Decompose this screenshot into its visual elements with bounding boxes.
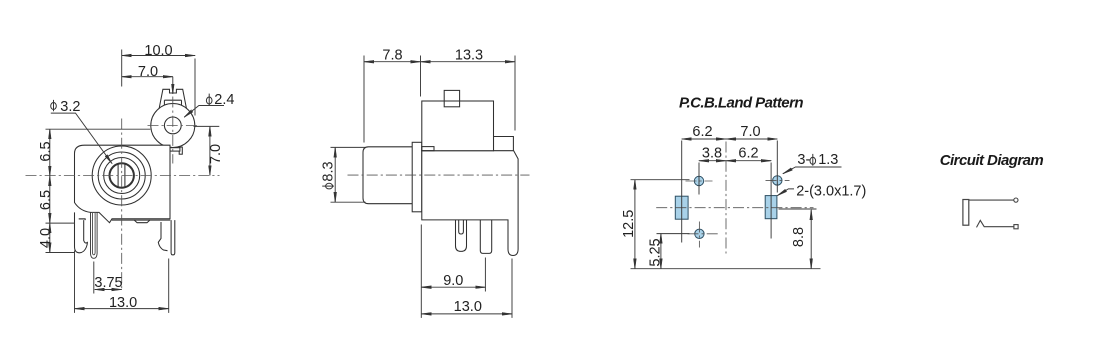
lower body block with ear	[422, 137, 518, 256]
dim 12.5 line	[634, 180, 636, 269]
ext 6.5 top	[46, 128, 151, 130]
svg-text:4.0: 4.0	[38, 228, 54, 248]
hole TR crosshair v	[776, 141, 778, 193]
ext phi8.3 top	[331, 146, 366, 148]
hole B crosshair h	[688, 233, 719, 235]
ext phi8.3 bottom	[331, 201, 366, 203]
dim 6.5 lower line	[49, 176, 51, 223]
pad L crosshair v	[681, 141, 683, 243]
dim 3.75 line	[95, 289, 122, 291]
hole bottom	[695, 229, 704, 238]
svg-text:3.8: 3.8	[702, 146, 722, 162]
switch terminal	[1014, 225, 1018, 229]
centerline vertical main	[121, 119, 123, 290]
svg-text:3.75: 3.75	[94, 275, 122, 291]
svg-text:13.0: 13.0	[454, 299, 482, 315]
barrel	[363, 147, 414, 204]
ext 3.75 left	[93, 262, 95, 294]
svg-text:6.2: 6.2	[738, 146, 758, 162]
body left small step	[79, 218, 85, 220]
front flange	[412, 142, 422, 212]
slot line left	[117, 164, 119, 187]
front view main body outline	[75, 145, 171, 223]
upper box shield	[422, 101, 494, 151]
dim 10.0 line	[122, 55, 195, 57]
centerline horizontal boss	[148, 125, 200, 127]
hole TL crosshair v	[698, 163, 700, 195]
hole B crosshair v	[698, 222, 700, 248]
svg-text:12.5: 12.5	[621, 210, 637, 238]
jack sleeve rectangle	[963, 200, 969, 226]
tip wire	[969, 199, 1014, 201]
ext 13.0 side right	[511, 259, 513, 318]
svg-text:8.3: 8.3	[321, 161, 337, 181]
body bottom band line	[112, 219, 170, 221]
middle thin pin outer	[91, 212, 98, 258]
svg-text:7.0: 7.0	[138, 64, 158, 80]
pad left	[675, 196, 688, 219]
ext 5.25 top	[657, 233, 690, 235]
top tab crossing line	[444, 100, 459, 102]
label phi2.4 leader	[184, 106, 224, 118]
dim 6.2 second line	[726, 160, 771, 162]
dim 9.0 line	[421, 286, 485, 288]
front view solder lug bar	[170, 148, 180, 151]
concentric circle outer r29.5	[92, 146, 151, 205]
pin A front	[456, 220, 467, 252]
ext 13.0 left	[74, 251, 76, 313]
dim 13.0 side line	[421, 313, 512, 315]
ext 7.8 left	[363, 56, 365, 143]
svg-text:9.0: 9.0	[443, 273, 463, 289]
dim 13.0 line	[75, 308, 169, 310]
middle thin pin inner slot	[93, 213, 96, 255]
svg-text:1.3: 1.3	[818, 152, 838, 168]
svg-text:Circuit Diagram: Circuit Diagram	[940, 152, 1044, 169]
concentric circle r23.5	[98, 152, 145, 199]
svg-text:8.8: 8.8	[791, 227, 807, 247]
ext 4.0 bottom	[46, 252, 76, 254]
svg-text:P.C.B.Land Pattern: P.C.B.Land Pattern	[679, 95, 803, 112]
front view solder lug post	[179, 147, 182, 154]
inner bold circle phi3.2	[110, 163, 134, 187]
svg-text:13.0: 13.0	[109, 295, 137, 311]
ext 13.0 side left	[420, 225, 422, 318]
dim 7.0 right line	[209, 126, 211, 175]
dim 4.0 line	[49, 223, 51, 252]
pin A inner slot	[459, 220, 464, 234]
small step box under box front	[422, 147, 434, 151]
ext 13.0 right	[168, 259, 170, 313]
dim 3.8 line	[699, 160, 726, 162]
dim 10.0 ext right	[194, 59, 196, 116]
front view crown tab on boss	[159, 89, 186, 108]
ext 9.0 right	[484, 258, 486, 292]
tip terminal	[1014, 198, 1018, 202]
ext 7.0 right top	[194, 125, 220, 127]
svg-text:6.2: 6.2	[692, 124, 712, 140]
ext 13.3 right	[514, 56, 516, 131]
concentric circle r18	[104, 158, 140, 194]
ext 6.5/4.0	[46, 222, 76, 224]
svg-text:2-(3.0x1.7): 2-(3.0x1.7)	[796, 184, 866, 200]
dim 6.2 top line	[682, 138, 726, 140]
right side strip	[171, 220, 175, 255]
svg-text:6.5: 6.5	[38, 190, 54, 210]
ext 8.8 top	[779, 208, 817, 210]
svg-text:3.2: 3.2	[60, 99, 80, 115]
switch contact wire	[977, 220, 1014, 227]
bottom reference line	[631, 268, 821, 270]
svg-text:3-: 3-	[797, 152, 810, 168]
hole phi2.4 circle	[164, 117, 181, 134]
hole TR crosshair h	[766, 179, 790, 181]
dim 7.0 pcb line	[726, 138, 777, 140]
pad R crosshair v	[770, 163, 772, 239]
dim phi8.3 text	[321, 161, 337, 188]
dim 5.25 line	[660, 234, 662, 269]
pcb centerline vertical	[725, 142, 727, 254]
dim 7.0 top line	[122, 76, 173, 78]
pin B middle	[480, 220, 491, 254]
box bottom line under ear	[494, 150, 514, 152]
left leg	[75, 212, 88, 252]
centerline horizontal main	[26, 175, 220, 177]
pcb centerline horizontal	[656, 207, 813, 209]
right leg hook	[158, 222, 167, 251]
svg-text:7.0: 7.0	[208, 144, 224, 164]
front view mounting boss circle	[151, 104, 195, 148]
dim 13.3 line	[421, 61, 516, 63]
centerline vertical boss	[172, 97, 174, 164]
svg-text:10.0: 10.0	[144, 43, 172, 59]
side view centerline	[348, 174, 530, 176]
svg-text:6.5: 6.5	[38, 141, 54, 161]
hole top-left	[694, 176, 703, 185]
pad right	[765, 196, 777, 219]
dim 10.0 ext left	[121, 50, 123, 87]
svg-text:13.3: 13.3	[455, 48, 483, 64]
svg-text:7.0: 7.0	[740, 124, 760, 140]
label phi2.4 text	[206, 94, 212, 106]
top tab	[444, 90, 459, 106]
dim phi8.3 line	[334, 147, 336, 202]
hole top-right	[773, 176, 782, 185]
extension arrow into crown notch	[172, 77, 174, 94]
ext shared middle	[420, 56, 422, 97]
dim 7.8 line	[364, 61, 421, 63]
svg-text:7.8: 7.8	[382, 48, 402, 64]
label phi3.2 leader	[51, 113, 112, 163]
dim 8.8 line	[810, 210, 812, 269]
dim 6.5 upper line	[49, 129, 51, 176]
label 2 leader	[778, 189, 795, 196]
svg-text:5.25: 5.25	[648, 238, 664, 266]
body bottom tooth	[134, 220, 150, 223]
label phi3.2 text	[51, 100, 57, 111]
slot line right	[124, 164, 126, 188]
ext 12.5 top	[631, 179, 690, 181]
left leg step	[79, 219, 85, 220]
label 3-phi1.3 underline leader	[783, 167, 842, 174]
hole TL crosshair h	[686, 180, 713, 182]
